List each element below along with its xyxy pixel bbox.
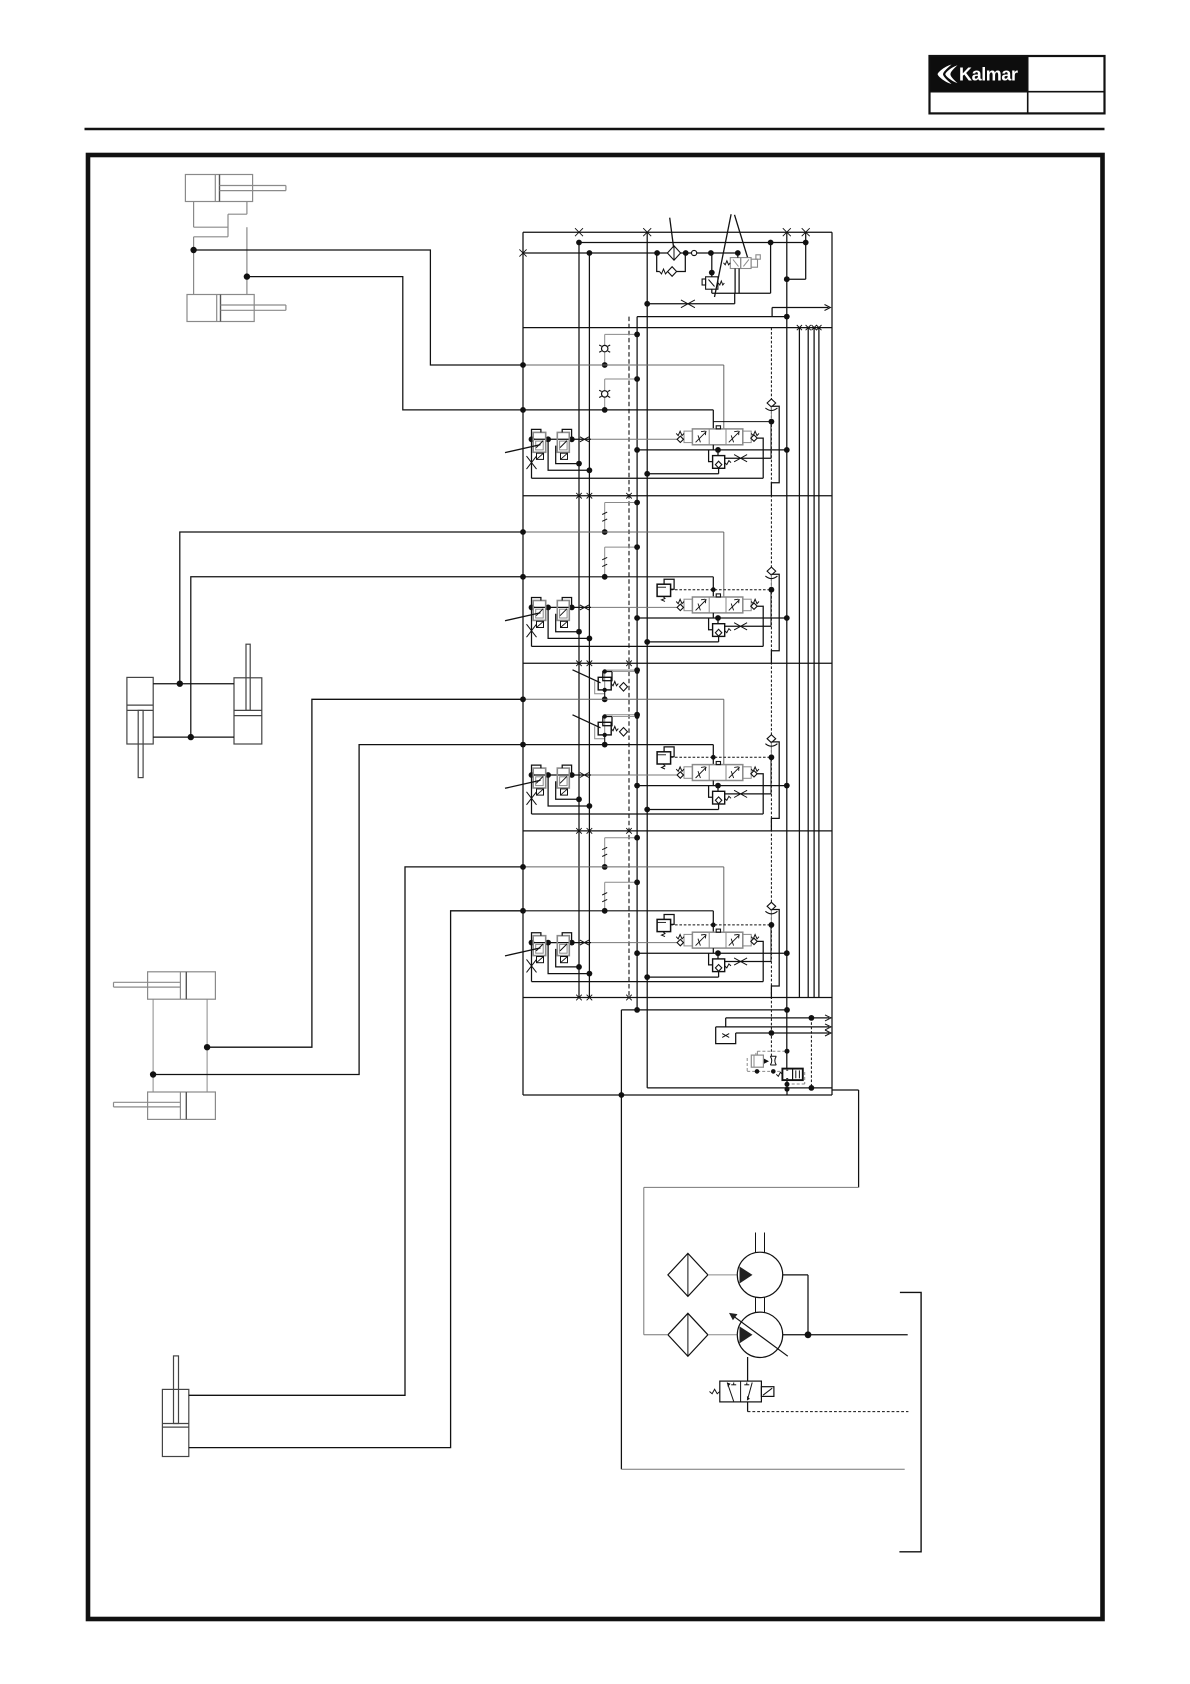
restrictor line with X	[644, 293, 734, 308]
pump regulator valve	[747, 1049, 805, 1095]
compensator restrictor section 3	[725, 790, 772, 797]
proportional reducer pair section 3	[527, 765, 678, 814]
check valve ball	[599, 390, 610, 397]
spreader work line B	[150, 745, 523, 1078]
header title block table	[930, 56, 1105, 113]
vertical gallery line v1	[578, 243, 580, 998]
compensator restrictor section 4	[725, 958, 772, 965]
crossing ticks	[519, 228, 821, 1000]
inner box bottom	[647, 1087, 832, 1089]
pressure compensator section 2	[634, 613, 790, 645]
section divider 2	[523, 495, 832, 497]
top gallery line 2	[579, 242, 806, 244]
anti-cavitation check section 3	[765, 735, 777, 755]
section divider 1	[523, 327, 832, 329]
pilot relief valve 1	[595, 669, 640, 699]
spreader cylinder 1	[114, 972, 216, 999]
work line B section 3	[520, 742, 713, 765]
pressure compensator section 1	[634, 445, 790, 477]
relief jog wire section 2	[771, 574, 779, 663]
svg-text:Kalmar: Kalmar	[959, 65, 1018, 85]
leader to reducer pair section 1	[505, 445, 541, 453]
lift spring box section 3	[657, 747, 674, 769]
sections bottom divider	[523, 997, 832, 999]
work line B section 2	[520, 574, 713, 597]
leader to pilot relief 1	[573, 670, 601, 683]
work line A section 3	[520, 696, 724, 764]
tank return gray line	[621, 1468, 904, 1470]
tilt cylinder left	[127, 677, 153, 777]
drain line down-left	[620, 1095, 622, 1469]
spreader work line A	[204, 699, 523, 1050]
cylinder C1 body	[185, 175, 286, 202]
section 2 branch bottom link	[602, 544, 640, 580]
anti-cavitation check section 2	[765, 567, 777, 587]
work line A section 2	[520, 529, 724, 597]
pilot line to check section 1	[713, 419, 774, 459]
manifold block outline top edge	[523, 231, 832, 233]
pressure compensator section 3	[634, 781, 790, 813]
work line B section 1	[520, 407, 713, 429]
leader line to filter	[670, 218, 674, 248]
pilot dash-dot line x771	[770, 328, 772, 1058]
gauge port circle	[692, 250, 697, 255]
pilot return bracket section 2	[532, 645, 764, 647]
tilt work line A	[153, 532, 523, 687]
pilot return bracket section 1	[532, 477, 764, 479]
drawing frame border	[88, 155, 1103, 1619]
proportional reducer pair section 4	[527, 933, 678, 982]
steering work line A	[190, 247, 523, 365]
pressure reducing valve	[702, 253, 724, 293]
leader to reducer pair section 3	[505, 780, 541, 788]
bus line b2	[807, 328, 809, 998]
pilot return bracket section 4	[532, 981, 764, 983]
pump pressure output	[783, 1275, 908, 1338]
section 3 branch top link	[602, 667, 640, 702]
LS dashed riser	[810, 1018, 812, 1088]
filter bypass relief	[657, 253, 686, 276]
work line B section 4	[520, 908, 713, 932]
section 2 branch top link	[602, 500, 640, 535]
fan motor M	[737, 1233, 782, 1298]
vertical return line r2	[786, 232, 788, 1068]
tank bracket	[899, 1292, 921, 1551]
leader to pilot relief 2	[573, 715, 601, 728]
filter links	[708, 1274, 737, 1276]
vertical gallery line v4	[636, 317, 638, 1010]
variable pump P	[729, 1298, 788, 1358]
orifice tick	[602, 512, 607, 521]
pilot return bracket section 3	[532, 813, 764, 815]
compensator restrictor section 1	[725, 455, 772, 462]
return line to tank	[644, 1090, 859, 1335]
tilt cylinder right	[234, 644, 262, 744]
pilot line to check section 2	[671, 587, 775, 627]
section 4 branch top link	[602, 835, 640, 870]
section 3 branch bottom link	[602, 712, 640, 748]
right top stub u-bend	[784, 232, 806, 282]
supply line	[523, 252, 668, 254]
work line A section 4	[520, 864, 724, 932]
section 1 branch top link	[602, 332, 640, 368]
LS staircase lines	[716, 1015, 831, 1044]
header rule	[85, 128, 1105, 131]
manifold block bottom edge	[523, 1094, 832, 1096]
valve right pilot wire section 4	[751, 938, 763, 981]
bottom gallery line	[621, 1007, 789, 1013]
proportional reducer pair section 2	[527, 598, 678, 647]
main directional valve section 4	[676, 929, 759, 948]
anti-cavitation check section 4	[765, 902, 777, 922]
bus line b4	[818, 328, 820, 998]
spreader link wires	[153, 999, 207, 1092]
check valve ball	[599, 345, 610, 352]
pressure compensator section 4	[634, 948, 790, 980]
pilot relief valve 2	[595, 714, 640, 745]
cylinder C2 body	[187, 295, 286, 322]
orifice tick	[602, 893, 607, 902]
filter F1	[667, 246, 680, 260]
valve drop wire	[737, 253, 739, 258]
relief jog wire section 1	[771, 406, 779, 495]
orifice tick	[602, 847, 607, 856]
jack work line A	[189, 867, 523, 1395]
steering work line B	[244, 273, 523, 410]
bus line b1	[798, 328, 800, 998]
pump control solenoid valve	[710, 1357, 774, 1402]
vertical gallery line v3	[628, 317, 630, 998]
wire below solenoid valve	[712, 243, 771, 293]
jack work line B	[189, 911, 523, 1448]
main directional valve section 2	[676, 594, 759, 613]
manifold block outline left edge	[522, 232, 524, 1095]
drain drop wire	[620, 1010, 622, 1095]
tilt work line B	[153, 577, 523, 741]
valve right pilot wire section 1	[751, 435, 763, 478]
cylinder yoke linkage	[194, 202, 247, 295]
valve right pilot wire section 2	[751, 603, 763, 646]
section 4 branch bottom link	[602, 879, 640, 913]
valve drain dashed	[748, 1402, 909, 1412]
pilot line to check section 3	[671, 754, 775, 794]
main directional valve section 1	[676, 426, 759, 445]
pilot line to check section 4	[671, 922, 775, 962]
compensator restrictor section 2	[725, 623, 772, 630]
leader line to reducing valve	[715, 214, 732, 297]
lift spring box section 2	[657, 579, 674, 601]
Kalmar logo	[938, 65, 1018, 85]
lift spring box section 4	[657, 915, 674, 937]
relief jog wire section 4	[771, 910, 779, 999]
relief jog wire section 3	[771, 742, 779, 831]
suction filter 2	[644, 1313, 708, 1356]
line to tank port arrow	[637, 305, 830, 320]
manifold block outline right edge	[831, 232, 833, 1095]
anti-cavitation check section 1	[765, 399, 777, 419]
proportional reducer pair section 1	[527, 429, 678, 478]
bus line b3	[813, 328, 815, 998]
vertical gallery line v2	[588, 253, 590, 998]
section divider 4	[523, 830, 832, 832]
section 1 branch bottom link	[602, 376, 640, 413]
vertical gallery line v5	[646, 232, 648, 1088]
leader to reducer pair section 2	[505, 613, 541, 621]
leader to reducer pair section 4	[505, 948, 541, 956]
jack cylinder body	[162, 1356, 188, 1457]
unloading solenoid valve body	[724, 255, 761, 269]
leader line to solenoid valve	[735, 215, 748, 257]
suction filter 1	[668, 1253, 708, 1296]
section divider 3	[523, 662, 832, 664]
work line A section 1	[520, 362, 724, 429]
valve right pilot wire section 3	[751, 771, 763, 814]
orifice tick	[602, 557, 607, 566]
spreader cylinder 2	[114, 1092, 216, 1119]
main directional valve section 3	[676, 762, 759, 781]
